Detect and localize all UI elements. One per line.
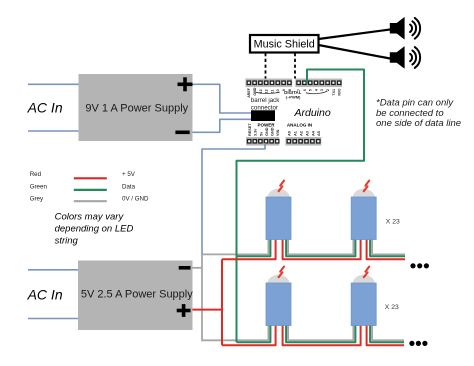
svg-text:A0: A0: [288, 131, 292, 136]
svg-text:6: 6: [303, 89, 307, 91]
svg-text:Grey: Grey: [30, 196, 44, 203]
svg-text:GND: GND: [265, 127, 269, 136]
svg-text:barrel jack: barrel jack: [251, 97, 280, 104]
svg-text:AC In: AC In: [27, 287, 63, 303]
svg-text:Data: Data: [122, 183, 136, 190]
svg-text:A5: A5: [317, 131, 321, 136]
svg-text:5V 2.5 A Power Supply: 5V 2.5 A Power Supply: [81, 288, 193, 300]
svg-text:(~PWM): (~PWM): [286, 95, 301, 100]
svg-text:ANALOG IN: ANALOG IN: [287, 123, 312, 128]
svg-text:3: 3: [320, 89, 324, 91]
svg-text:RX0: RX0: [338, 89, 342, 96]
svg-text:connector: connector: [251, 104, 278, 111]
svg-text:X 23: X 23: [386, 218, 400, 225]
svg-text:5: 5: [309, 89, 313, 91]
svg-text:2: 2: [326, 89, 330, 91]
svg-text:12: 12: [265, 89, 269, 93]
svg-text:Arduino: Arduino: [294, 107, 331, 119]
svg-text:Music Shield: Music Shield: [254, 39, 315, 51]
svg-text:POWER: POWER: [257, 123, 275, 128]
svg-text:AC In: AC In: [27, 100, 63, 116]
svg-text:depending on LED: depending on LED: [55, 224, 134, 235]
svg-text:RESET: RESET: [248, 123, 252, 136]
svg-text:VIN: VIN: [276, 129, 280, 136]
svg-text:A1: A1: [294, 131, 298, 136]
svg-text:GND: GND: [271, 127, 275, 136]
svg-text:Colors may vary: Colors may vary: [55, 212, 125, 223]
svg-text:3.3v: 3.3v: [254, 128, 258, 136]
svg-text:0V / GND: 0V / GND: [122, 196, 149, 203]
svg-text:GND: GND: [253, 87, 257, 95]
svg-text:one side of data line: one side of data line: [376, 118, 461, 129]
svg-text:Green: Green: [30, 183, 48, 190]
svg-text:TX1: TX1: [332, 89, 336, 96]
svg-text:+ 5V: + 5V: [122, 171, 136, 178]
svg-text:string: string: [55, 236, 79, 247]
svg-text:X 23: X 23: [385, 304, 399, 311]
svg-text:9V 1 A Power Supply: 9V 1 A Power Supply: [85, 102, 188, 114]
svg-text:Red: Red: [30, 171, 42, 178]
svg-text:4: 4: [314, 89, 318, 91]
svg-text:A2: A2: [300, 131, 304, 136]
svg-text:A3: A3: [305, 131, 309, 136]
